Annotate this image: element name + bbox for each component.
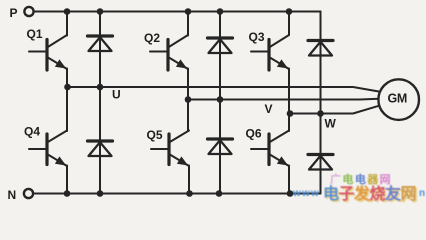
junction Q1 collector on P rail bbox=[64, 8, 71, 15]
junction Q4 emitter on N rail bbox=[64, 190, 71, 197]
junction diode column 2 on P rail bbox=[217, 8, 224, 15]
transistor Q2 bbox=[150, 35, 188, 70]
wire Q4 emitter to N rail bbox=[66, 166, 68, 194]
wire Q1 collector to P rail bbox=[66, 12, 68, 36]
junction Q5 emitter on N rail bbox=[186, 190, 193, 197]
transistor Q4 bbox=[29, 131, 67, 167]
terminal P bbox=[24, 7, 33, 16]
wire Q5 emitter to N rail bbox=[188, 166, 190, 194]
transistor Q5 bbox=[151, 131, 189, 167]
junction Q3 collector on P rail bbox=[286, 8, 293, 15]
P rail (positive bus) bbox=[35, 11, 321, 13]
wire Q2 emitter / node V / Q5 collector bbox=[187, 69, 189, 132]
junction Q6 emitter on N rail bbox=[287, 190, 294, 197]
watermark row 2: colorful url text bbox=[293, 180, 426, 204]
wire phase W bus to motor bbox=[289, 106, 379, 114]
junction node V bbox=[185, 96, 192, 103]
diode D2 (upper, leg 2) bbox=[208, 38, 233, 53]
svg-text:V: V bbox=[265, 102, 273, 116]
wire diode column leg 2 bbox=[219, 12, 221, 194]
svg-text:Q2: Q2 bbox=[144, 31, 160, 45]
watermark row 1: site name bbox=[330, 171, 392, 187]
motor GM bbox=[378, 79, 419, 120]
wire phase U bus to motor bbox=[68, 87, 379, 92]
junction diode column on N rail bbox=[97, 190, 104, 197]
wire phase V bus to motor bbox=[188, 98, 378, 101]
junction diode column on P rail bbox=[97, 8, 104, 15]
svg-text:W: W bbox=[325, 117, 337, 131]
wire Q3 emitter / node W / Q6 collector bbox=[288, 69, 290, 132]
svg-text:Q3: Q3 bbox=[249, 30, 265, 44]
svg-text:GM: GM bbox=[388, 92, 408, 106]
junction node W bbox=[287, 110, 294, 117]
svg-text:Q5: Q5 bbox=[147, 128, 163, 142]
transistor Q1 bbox=[29, 35, 67, 70]
svg-text:N: N bbox=[8, 188, 17, 202]
junction diode column 2 on N rail bbox=[216, 190, 223, 197]
junction node U bbox=[64, 84, 71, 91]
diode D4 (lower, leg 1) bbox=[88, 141, 113, 156]
wire Q3 collector to P rail bbox=[288, 12, 290, 36]
junction diode column 3 at node W bbox=[317, 110, 324, 117]
wire diode column leg 1 bbox=[99, 12, 101, 194]
svg-text:Q6: Q6 bbox=[246, 127, 262, 141]
svg-text:U: U bbox=[112, 88, 121, 102]
diode D3 (upper, leg 3) bbox=[308, 41, 333, 56]
transistor Q3 bbox=[251, 35, 289, 70]
wire Q2 collector to P rail bbox=[187, 12, 189, 36]
junction diode column at node U bbox=[97, 84, 104, 91]
svg-text:Q1: Q1 bbox=[27, 27, 43, 41]
junction diode column 2 at node V bbox=[217, 96, 224, 103]
N rail (negative bus) bbox=[35, 193, 321, 195]
diode D6 (lower, leg 3) bbox=[308, 155, 333, 170]
transistor Q6 bbox=[251, 131, 289, 167]
terminal N bbox=[24, 189, 33, 198]
diode D1 (upper, leg 1) bbox=[88, 36, 113, 51]
wire Q6 emitter to N rail bbox=[288, 166, 290, 194]
svg-text:P: P bbox=[10, 6, 18, 20]
junction Q2 collector on P rail bbox=[185, 8, 192, 15]
wire Q1 emitter / node U / Q4 collector bbox=[66, 69, 68, 132]
diode D5 (lower, leg 2) bbox=[208, 139, 233, 154]
wire diode column leg 3 (right edge) bbox=[320, 12, 322, 194]
svg-text:Q4: Q4 bbox=[24, 125, 40, 139]
